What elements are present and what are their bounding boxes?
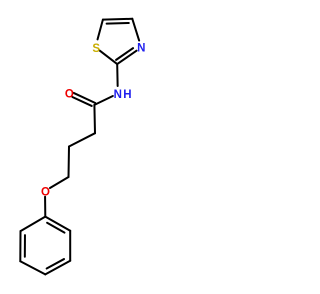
bond C2(thiazole)-N(amide) — [116, 64, 118, 86]
svg-text:O: O — [65, 89, 74, 101]
thiazole ring: double bond C5=C4 (inner line) — [107, 22, 129, 25]
benzene ring: double bond C2=C3 (inner line) — [24, 235, 26, 257]
benzene ring: double bond C6=C1 (outer line) — [45, 217, 70, 231]
thiazole ring: bond C4-N3 — [132, 19, 139, 41]
benzene ring: double bond C4=C5 (inner line) — [47, 259, 64, 268]
thiazole ring: double bond N3=C2 (outer line) — [117, 51, 136, 64]
svg-text:H: H — [123, 89, 131, 101]
thiazole ring: bond S1-C5 — [98, 20, 103, 40]
thiazole ring: double bond C5=C4 (outer line) — [103, 18, 132, 21]
bond CH2-CH2 (second) — [68, 147, 71, 178]
double bond C=O carbonyl (line 1) — [74, 93, 96, 103]
svg-text:O: O — [41, 187, 50, 199]
svg-text:N: N — [137, 43, 145, 55]
double bond C=O carbonyl (line 2) — [72, 97, 91, 106]
2D chemical structure: 4-phenoxy-N-(1,3-thiazol-2-yl)butanamide — [0, 0, 160, 294]
benzene ring: double bond C4=C5 (outer line) — [45, 261, 70, 275]
bond CH2-O(ether) — [50, 177, 69, 188]
svg-text:N: N — [114, 89, 122, 101]
bond C(carbonyl)-CH2 — [93, 105, 96, 133]
thiazole ring: bond C2-S1 — [100, 51, 118, 65]
benzene ring: double bond C2=C3 (outer line) — [19, 231, 21, 261]
bond N(amide)-C(carbonyl) — [94, 96, 112, 105]
thiazole ring: double bond N3=C2 (inner line) — [116, 48, 133, 60]
bond CH2-CH2 — [69, 133, 95, 146]
benzene ring: bond C5-C6 — [69, 231, 71, 261]
benzene ring: bond C3-C4 — [20, 261, 45, 274]
svg-text:S: S — [92, 43, 100, 55]
bond O(ether)-C1(phenyl) — [44, 197, 46, 217]
benzene ring: bond C1-C2 — [21, 217, 46, 232]
benzene ring: double bond C6=C1 (inner line) — [47, 223, 64, 233]
